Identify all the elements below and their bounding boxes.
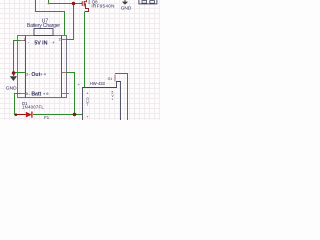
wire ANT net: [115, 74, 128, 121]
svg-text:+: +: [43, 92, 46, 97]
wire pin4 down to bottom net: [67, 73, 75, 115]
connector J1 top-right corner: [139, 0, 157, 4]
svg-text:+: +: [40, 72, 43, 77]
wire gate net from top edge to transistor: [49, 0, 81, 4]
wire VIN net from top edge down to U7 top: [36, 0, 65, 35]
svg-text:6: 6: [46, 92, 48, 96]
svg-text:HW-433: HW-433: [90, 81, 106, 86]
svg-text:2: 2: [59, 37, 61, 41]
diode D1: [26, 112, 32, 118]
module HW-433 box: [83, 82, 121, 121]
wire junction down to U7 pin2: [67, 4, 74, 40]
U7 pin 6: [43, 92, 69, 97]
svg-text:4: 4: [44, 72, 46, 76]
node dot at gate-net corner: [48, 3, 50, 5]
wire pin5 down to diode: [15, 94, 21, 115]
U7 pin 1: [18, 38, 30, 45]
U7 pin 5: [18, 92, 31, 97]
svg-text:Battery Charger: Battery Charger: [27, 23, 61, 29]
grid background: [0, 0, 160, 120]
node dot diode anode: [15, 113, 18, 116]
transistor Q8 (red symbol): [81, 0, 89, 12]
wire drain net vertical: [84, 12, 86, 88]
svg-text:IRF9540N: IRF9540N: [91, 3, 114, 8]
svg-text:O1: O1: [108, 77, 113, 81]
U7 battery charger module box: [18, 29, 67, 98]
node junction dot bottom: [73, 113, 77, 117]
U7 pin 3: [18, 72, 31, 77]
ground left: [6, 73, 17, 91]
U7 pin 4: [40, 72, 67, 77]
svg-text:GND: GND: [6, 85, 17, 91]
svg-text:GND: GND: [121, 5, 132, 11]
node junction dot A: [72, 2, 75, 5]
svg-text:5V IN: 5V IN: [34, 41, 47, 47]
svg-text:Batt: Batt: [31, 92, 41, 98]
svg-text:F1: F1: [44, 115, 50, 120]
ground top-right: [121, 0, 132, 11]
svg-text:+: +: [52, 40, 55, 45]
wire diode to module: [33, 114, 83, 116]
module ANT pin stub: [114, 75, 116, 82]
diode D1 lead: [16, 114, 26, 116]
svg-text:1: 1: [24, 38, 26, 42]
svg-text:1N4007FL: 1N4007FL: [22, 105, 44, 110]
svg-text:T: T: [86, 103, 88, 107]
node junction dot GND: [12, 71, 16, 75]
U7 pin 2: [52, 37, 67, 44]
wire pin1 to gnd junction to pin3: [14, 41, 26, 73]
svg-text:+: +: [112, 97, 114, 101]
